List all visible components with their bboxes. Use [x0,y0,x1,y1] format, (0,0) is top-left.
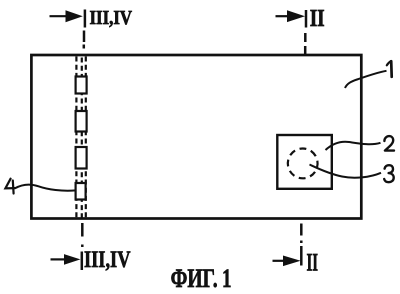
svg-text:II: II [310,6,325,32]
label 4 (hand-drawn open-top four) [5,179,15,194]
section centerline III,IV inside plate [81,58,83,218]
arrow top-right (view II) [276,10,306,22]
plate outline 1 (main rectangle) [31,55,361,219]
svg-text:III,IV: III,IV [84,247,131,273]
section line II below plate [300,224,303,266]
leader line to 3 [310,165,382,178]
slot 4b [76,111,87,132]
slot 4d [76,183,86,200]
arrow bottom-left (view III,IV) [51,254,81,265]
label 3 [384,165,394,182]
svg-text:III,IV: III,IV [90,7,133,29]
svg-text:II: II [307,249,319,276]
slot 4c [76,147,87,169]
section line II above plate [304,10,307,55]
arrow top-left (view III,IV) [50,10,83,22]
label 1 [387,61,392,77]
label 2 [384,136,394,151]
svg-text:1: 1 [222,264,232,293]
leader line to 2 [326,142,381,150]
section line III,IV below plate [81,223,84,270]
arrow bottom-right (view II) [273,256,301,267]
leader line to 4 [15,185,76,191]
slot 4a [76,77,87,94]
hidden hole 3 (dashed circle) [282,143,324,185]
svg-text:ФИГ.: ФИГ. [171,264,218,293]
section line III,IV above plate [84,10,85,49]
leader line to 1 [345,71,387,88]
hidden slot column left dashed line [75,57,77,218]
boss outline 2 (small square) [277,135,332,189]
hidden slot column right dashed line [85,57,87,218]
